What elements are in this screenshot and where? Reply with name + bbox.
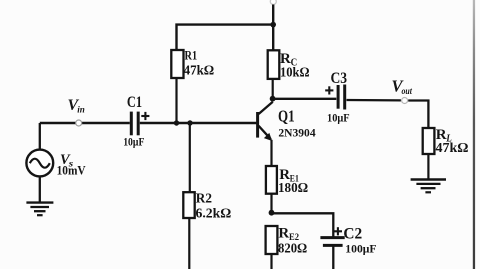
svg-text:10μF: 10μF: [327, 113, 350, 125]
transistor Q1 2N3904: [258, 102, 316, 141]
svg-text:180Ω: 180Ω: [278, 181, 308, 196]
svg-text:C2: C2: [343, 225, 362, 242]
label Vout: [392, 77, 413, 98]
label Vin: [68, 97, 85, 115]
junction dot base/R1: [174, 120, 179, 125]
capacitor C3: [325, 70, 349, 125]
wire R1 bottom to base node: [175, 78, 177, 123]
wire R2 bottom (exits image): [188, 218, 190, 269]
svg-text:2N3904: 2N3904: [278, 125, 315, 139]
svg-text:10μF: 10μF: [123, 137, 144, 149]
svg-text:Q1: Q1: [278, 107, 295, 126]
wire RE1 bottom to emitter node: [270, 194, 272, 213]
svg-text:in: in: [77, 105, 85, 115]
svg-text:R1: R1: [185, 48, 198, 63]
scan edge artifact line (right page edge): [473, 0, 475, 269]
junction dot base/R2: [187, 120, 192, 125]
svg-text:R: R: [278, 226, 289, 242]
resistor RE1: [266, 166, 308, 196]
capacitor C1: [123, 94, 149, 149]
svg-text:R2: R2: [196, 192, 212, 207]
svg-text:47kΩ: 47kΩ: [184, 64, 215, 79]
wire RC bottom to collector node: [272, 79, 274, 99]
svg-text:820Ω: 820Ω: [278, 242, 307, 257]
wire source bottom to ground: [39, 176, 41, 202]
wire C3 to Vout corner: [347, 99, 401, 102]
node Vout terminal circle: [402, 98, 408, 104]
svg-text:10kΩ: 10kΩ: [280, 65, 310, 80]
wire emitter node to C2: [272, 213, 334, 237]
svg-text:100μF: 100μF: [345, 243, 376, 255]
wire RL bottom to ground: [427, 154, 429, 179]
ground (source): [26, 203, 53, 216]
ground (load): [411, 180, 446, 193]
wire source to C1 left plate: [40, 122, 130, 124]
resistor RC: [268, 50, 310, 80]
svg-text:47kΩ: 47kΩ: [436, 141, 469, 156]
wire R2 top (base node down to R2): [189, 123, 191, 192]
node Vin terminal circle: [76, 120, 82, 126]
svg-text:C1: C1: [127, 94, 142, 111]
resistor RL: [423, 127, 469, 156]
wire top supply rail: [177, 25, 274, 50]
resistor RE2: [266, 226, 308, 257]
svg-text:out: out: [402, 87, 413, 97]
capacitor C2: [320, 225, 376, 255]
wire emitter down to RE1: [270, 140, 272, 166]
wire Vout to RL: [408, 101, 428, 129]
svg-text:10mV: 10mV: [57, 162, 87, 177]
wire RE2 bottom (exits image): [270, 254, 272, 269]
resistor R2: [183, 192, 231, 222]
wire collector node to C3: [273, 98, 337, 100]
svg-text:C3: C3: [331, 70, 348, 87]
wire VCC stub: [272, 5, 274, 52]
svg-text:6.2kΩ: 6.2kΩ: [196, 207, 232, 222]
source Vs: [26, 150, 86, 178]
junction dot emitter node: [269, 210, 275, 216]
resistor R1: [171, 48, 214, 79]
wire base wire (C1 right plate to base bar): [140, 122, 257, 124]
junction dot collector node: [270, 96, 276, 102]
junction dot rail/VCC: [270, 22, 276, 28]
node VCC terminal circle (cut off at top): [270, 0, 276, 5]
wire Vin corner down to source: [39, 123, 41, 150]
wire C2 bottom (exits image): [332, 245, 334, 269]
